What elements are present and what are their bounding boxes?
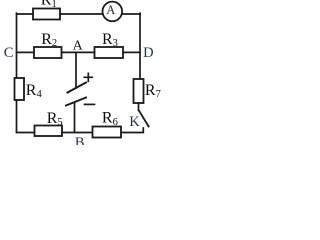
wire: [16, 100, 18, 133]
wire: [122, 13, 140, 15]
svg-text:R3: R3: [102, 31, 118, 49]
resistor R5: [35, 110, 63, 136]
svg-text:K: K: [129, 114, 140, 130]
resistor R6: [93, 110, 122, 138]
wire: [17, 13, 34, 15]
ammeter A: [103, 2, 123, 22]
svg-text:R2: R2: [41, 31, 57, 49]
svg-text:D: D: [143, 45, 153, 61]
resistor R3: [95, 31, 124, 58]
svg-text:R7: R7: [145, 82, 161, 100]
wire: [75, 52, 77, 88]
wire: [74, 102, 76, 132]
wire: [60, 13, 103, 15]
svg-text:A: A: [73, 38, 84, 53]
svg-text:B: B: [75, 135, 85, 145]
svg-text:R5: R5: [47, 110, 63, 128]
wire: [62, 132, 93, 134]
node B: [75, 135, 85, 151]
resistor R2: [34, 31, 62, 58]
svg-text:R1: R1: [41, 0, 57, 10]
svg-text:C: C: [4, 45, 14, 61]
wire: [16, 13, 18, 78]
node D: [143, 45, 153, 61]
svg-text:R6: R6: [102, 110, 118, 128]
resistor R4: [15, 78, 43, 100]
node A: [73, 38, 84, 53]
switch K: [129, 103, 148, 130]
wire: [139, 13, 141, 79]
wire: [121, 128, 143, 133]
node C: [4, 45, 14, 61]
wire: [17, 51, 35, 53]
battery: [66, 52, 95, 105]
resistor R1: [33, 0, 60, 20]
wire: [17, 132, 35, 134]
wire: [62, 51, 95, 53]
resistor R7: [134, 79, 161, 103]
svg-text:R4: R4: [26, 82, 43, 100]
wire: [123, 51, 140, 53]
svg-text:A: A: [106, 3, 115, 17]
